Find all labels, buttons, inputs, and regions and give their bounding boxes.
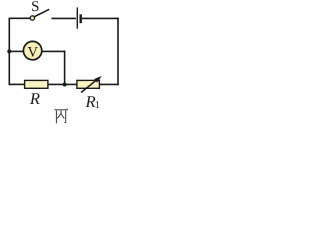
battery short plate (79, 14, 81, 23)
resistor R body (25, 80, 48, 88)
caption glyph bing (丙) top horizontal (54, 109, 67, 124)
wire bottom-left segment (9, 83, 24, 85)
junction node voltmeter tap (7, 49, 11, 53)
wire bottom-right segment (99, 83, 118, 85)
switch S contact circle (30, 16, 34, 20)
bing left vertical (55, 111, 57, 124)
voltmeter body (23, 41, 41, 59)
wire voltmeter left stub (9, 50, 23, 52)
svg-text:1: 1 (95, 100, 100, 111)
wire voltmeter right stub (42, 50, 65, 52)
wire left vertical (8, 18, 10, 86)
bing right vertical (65, 111, 67, 123)
svg-text:R: R (29, 89, 40, 108)
rheostat R1 arrow (81, 79, 98, 93)
svg-text:S: S (31, 0, 39, 15)
bing center short vertical (60, 111, 62, 115)
battery long plate (76, 7, 78, 28)
wire top-right segment (82, 17, 119, 19)
bing left-falling stroke (57, 114, 61, 119)
rheostat R1 body (77, 80, 100, 88)
switch S lever (34, 9, 49, 16)
bing right-falling stroke (61, 114, 64, 119)
wire top-left segment (9, 17, 31, 19)
wire middle vertical (64, 51, 66, 85)
svg-text:V: V (27, 45, 38, 61)
junction node between R and R1 (63, 83, 67, 87)
wire right vertical (117, 18, 119, 86)
wire bottom-middle segment (48, 83, 77, 85)
wire top-middle segment (52, 17, 77, 19)
